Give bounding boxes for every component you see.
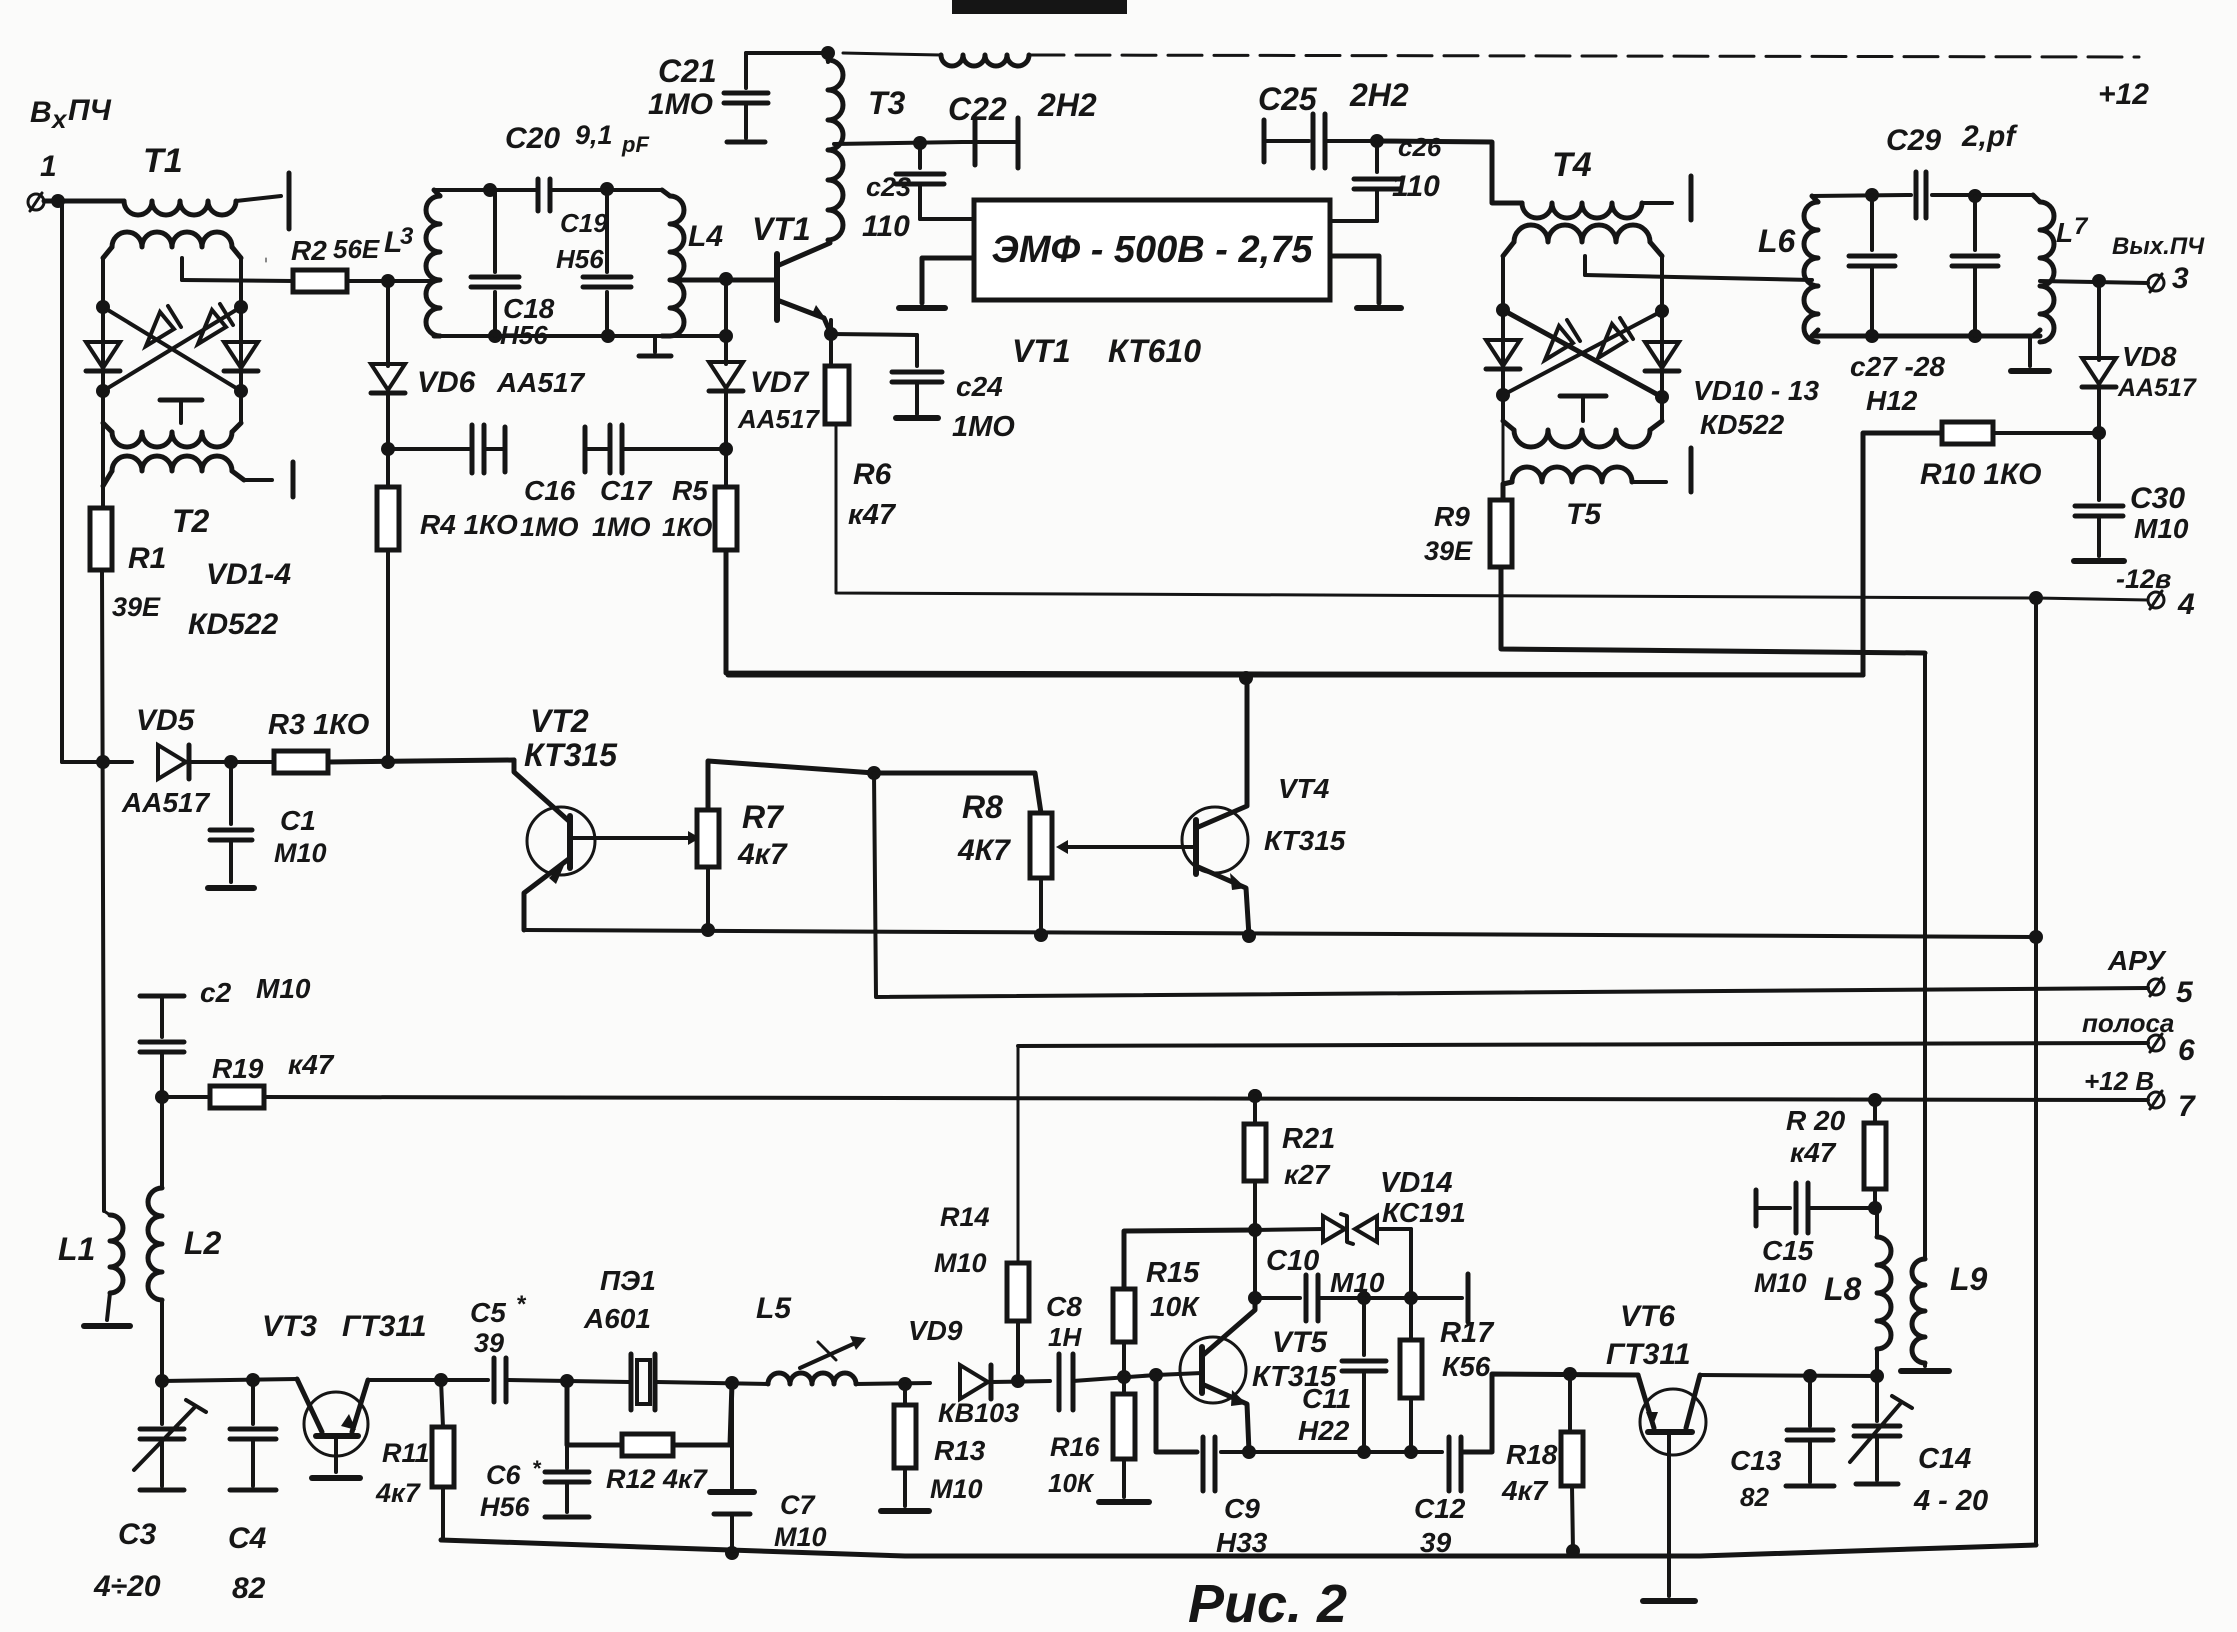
svg-text:с23: с23 xyxy=(866,172,911,202)
svg-text:39: 39 xyxy=(474,1328,504,1358)
capacitor C20 xyxy=(505,120,649,211)
svg-text:АА517: АА517 xyxy=(737,404,820,434)
svg-text:L2: L2 xyxy=(184,1225,222,1261)
capacitor C14 trimmer xyxy=(1850,1376,1988,1517)
ring diagonal wire B xyxy=(96,300,248,398)
svg-text:ЭМФ - 500В - 2,75: ЭМФ - 500В - 2,75 xyxy=(992,229,1314,271)
svg-text:R8: R8 xyxy=(962,789,1003,825)
svg-text:С5: С5 xyxy=(470,1297,506,1328)
wire VD14 down xyxy=(1404,1229,1418,1305)
svg-text:С11: С11 xyxy=(1302,1383,1351,1414)
svg-text:1МО: 1МО xyxy=(952,411,1015,443)
resistor R2 xyxy=(291,234,380,292)
top rail winding xyxy=(843,53,1029,66)
svg-text:R16: R16 xyxy=(1050,1432,1101,1462)
svg-text:110: 110 xyxy=(1392,170,1440,203)
svg-text:10К: 10К xyxy=(1048,1468,1095,1498)
labels VD10-13 KD522 xyxy=(1693,375,1819,440)
labels VT1 KT610 xyxy=(1012,333,1201,369)
junction C25/C26/T4 xyxy=(1370,134,1384,148)
tank2 bottom line xyxy=(1812,329,2040,343)
svg-text:М10: М10 xyxy=(274,838,327,868)
svg-text:+12: +12 xyxy=(2098,78,2149,111)
capacitor C22 xyxy=(948,87,1097,168)
transistor VT4 xyxy=(1182,678,1346,936)
tank2 top line xyxy=(1812,188,1911,202)
wire R7 top rail xyxy=(708,761,881,810)
capacitor C6 xyxy=(480,1381,589,1522)
svg-text:КD522: КD522 xyxy=(1700,409,1785,440)
resistor R15 xyxy=(1113,1230,1255,1377)
svg-text:М10: М10 xyxy=(256,973,311,1004)
resistor R14 / polosa drop xyxy=(934,1046,1029,1381)
svg-text:КТ315: КТ315 xyxy=(1264,825,1346,856)
R7 bottom lead xyxy=(706,867,710,930)
diode VD10 (left) xyxy=(1486,340,1520,369)
resistor R13 xyxy=(881,1384,986,1511)
wire PE1 to L5 xyxy=(657,1376,768,1390)
svg-text:М10: М10 xyxy=(1754,1268,1807,1298)
inductor L5 xyxy=(756,1292,856,1384)
svg-text:+12 В: +12 В xyxy=(2084,1066,2154,1096)
inductor L4 xyxy=(662,190,723,336)
svg-text:82: 82 xyxy=(232,1572,266,1605)
diode VD2 (right) xyxy=(224,342,258,371)
svg-text:39: 39 xyxy=(1420,1527,1452,1558)
svg-text:Н22: Н22 xyxy=(1298,1415,1350,1446)
svg-text:С9: С9 xyxy=(1224,1493,1260,1524)
svg-text:R2: R2 xyxy=(291,235,327,266)
svg-text:2Н2: 2Н2 xyxy=(1037,87,1097,123)
svg-text:С30: С30 xyxy=(2130,482,2185,515)
EMF input pin upper xyxy=(920,217,974,221)
svg-text:Н56: Н56 xyxy=(556,244,604,274)
inductor L6 xyxy=(1758,196,1818,342)
R8 bottom lead xyxy=(1039,878,1043,935)
svg-text:L4: L4 xyxy=(688,220,723,253)
diode VD9 xyxy=(908,1315,1019,1428)
wire to T4 xyxy=(1377,141,1522,203)
svg-text:R12 4к7: R12 4к7 xyxy=(606,1464,709,1494)
transformer T4 core bar xyxy=(1689,176,1694,220)
svg-text:КТ315: КТ315 xyxy=(524,737,618,773)
svg-text:10К: 10К xyxy=(1150,1291,1200,1322)
resistor R11 xyxy=(375,1380,454,1540)
svg-text:9,1: 9,1 xyxy=(575,120,613,150)
top rail to +12 xyxy=(1030,55,2149,111)
svg-text:R6: R6 xyxy=(853,458,892,491)
resistor R8 xyxy=(957,789,1052,878)
svg-text:R3 1КО: R3 1КО xyxy=(268,709,370,741)
bottom wire C5 to PE1 xyxy=(507,1374,629,1388)
wire VD7 to R5 xyxy=(719,393,733,487)
svg-text:Н33: Н33 xyxy=(1216,1527,1268,1558)
wire R2 to tank xyxy=(347,274,436,288)
ARU wire xyxy=(874,773,2194,1009)
wire rail to R8 xyxy=(874,773,1041,813)
EMF output pin upper xyxy=(1330,219,1377,223)
ring2 bottom winding xyxy=(1503,421,1662,447)
labels VD1-4 KD522 xyxy=(188,558,291,641)
resistor R18 xyxy=(1501,1374,1583,1558)
svg-text:R18: R18 xyxy=(1506,1439,1558,1470)
resistor R4 xyxy=(377,487,518,550)
wire R5 down right (to -12 region) xyxy=(726,550,1863,675)
svg-text:R19: R19 xyxy=(212,1053,264,1084)
wire top rail left xyxy=(746,46,835,60)
transistor VT1 xyxy=(752,211,831,334)
capacitor C17 xyxy=(592,425,653,542)
svg-text:С6: С6 xyxy=(486,1460,521,1490)
resistor R7 xyxy=(697,799,788,871)
wire C8 to R15/R16 node xyxy=(1073,1370,1156,1384)
svg-text:VD14: VD14 xyxy=(1380,1167,1453,1199)
svg-text:VТ6: VТ6 xyxy=(1620,1300,1675,1333)
diode VD6 xyxy=(371,281,586,399)
tank bottom line xyxy=(434,329,733,343)
svg-text:R21: R21 xyxy=(1282,1123,1335,1155)
svg-text:Т1: Т1 xyxy=(143,142,183,180)
long vertical to L9 xyxy=(1923,653,1927,1259)
resistor R6 xyxy=(824,320,897,531)
svg-text:1КО: 1КО xyxy=(662,512,712,542)
transformer T2 core bar xyxy=(172,462,293,539)
diode VD3 (upper diagonal) xyxy=(146,306,181,346)
svg-text:АА517: АА517 xyxy=(2117,374,2197,402)
ring demodulator VD1-4 top winding xyxy=(103,232,241,258)
svg-text:39Е: 39Е xyxy=(112,592,161,622)
svg-text:с24: с24 xyxy=(956,371,1003,402)
resistor R3 xyxy=(268,709,370,773)
svg-text:к47: к47 xyxy=(848,499,897,531)
svg-text:6: 6 xyxy=(2178,1034,2195,1067)
capacitor C21 xyxy=(648,53,768,142)
bottom wire VT3 to C5 xyxy=(368,1373,488,1387)
svg-text:ГТ311: ГТ311 xyxy=(342,1310,427,1343)
svg-text:R9: R9 xyxy=(1434,501,1470,532)
EMF filter box ЭМФ-500В-2,75 xyxy=(974,200,1330,300)
wire R1 down to L1 xyxy=(102,570,104,1211)
EMF output pin lower xyxy=(1330,256,1401,308)
svg-text:4К7: 4К7 xyxy=(957,834,1011,867)
figure caption Рис.2 xyxy=(1188,1574,1347,1632)
capacitor C24 xyxy=(831,334,1015,443)
capacitor C29 xyxy=(1886,120,2018,218)
wire VT2 collector to R7 wiper xyxy=(570,831,700,845)
svg-text:VТ2: VТ2 xyxy=(530,703,589,739)
tank top line xyxy=(434,182,614,197)
wire R4 down to R3 node xyxy=(386,550,390,763)
wire VD8 to R10 node xyxy=(2092,389,2106,440)
svg-text:С15: С15 xyxy=(1762,1235,1814,1266)
svg-text:КТ610: КТ610 xyxy=(1108,333,1201,369)
transformer T5 core bar xyxy=(1689,448,1694,492)
svg-text:4: 4 xyxy=(2177,588,2195,621)
svg-text:С16: С16 xyxy=(524,475,576,506)
svg-text:-12в: -12в xyxy=(2116,564,2171,594)
svg-text:R17: R17 xyxy=(1440,1317,1495,1349)
svg-text:VТ1: VТ1 xyxy=(1012,333,1071,369)
svg-text:7: 7 xyxy=(2074,213,2089,240)
svg-text:VD5: VD5 xyxy=(136,704,196,737)
transformer T5 winding xyxy=(1503,467,1666,531)
ring2 diagonal A xyxy=(1496,303,1669,404)
diode VD8 xyxy=(2082,281,2197,402)
svg-text:С14: С14 xyxy=(1918,1443,1971,1475)
resistor R5 xyxy=(662,475,737,550)
capacitor C16 xyxy=(472,425,579,542)
svg-text:1МО: 1МО xyxy=(648,88,713,121)
svg-text:Вых.ПЧ: Вых.ПЧ xyxy=(2112,233,2205,260)
svg-text:4к7: 4к7 xyxy=(737,838,788,871)
svg-text:ПЭ1: ПЭ1 xyxy=(600,1265,656,1296)
resistor R12 xyxy=(567,1381,732,1494)
wire R3 to VT2 base xyxy=(328,755,514,769)
svg-text:VD10 - 13: VD10 - 13 xyxy=(1693,375,1819,406)
svg-text:В: В xyxy=(30,96,52,129)
svg-text:L: L xyxy=(2056,217,2073,248)
svg-text:М10: М10 xyxy=(774,1522,827,1552)
svg-text:Т2: Т2 xyxy=(172,503,210,539)
capacitor C7 xyxy=(710,1383,827,1560)
inductor L9 xyxy=(1901,1259,1988,1371)
capacitor C23 xyxy=(862,143,944,243)
svg-text:VD9: VD9 xyxy=(908,1315,963,1346)
svg-text:С25: С25 xyxy=(1258,81,1318,117)
bottom bus xyxy=(441,1540,2036,1556)
wire R6 down to -12 line xyxy=(836,424,2034,598)
emitter bus VT5 xyxy=(1242,1445,1442,1459)
svg-text:Т4: Т4 xyxy=(1552,146,1592,184)
coupling line C16 C17 xyxy=(388,427,728,472)
transformer T2 winding xyxy=(103,456,244,486)
wire input down (left vertical) xyxy=(60,203,64,762)
wire ring2 to T5 xyxy=(1502,421,1505,486)
ring2 top winding xyxy=(1503,225,1662,256)
wire C12 up to VT6 base xyxy=(1462,1367,1638,1452)
svg-text:R 20: R 20 xyxy=(1786,1105,1846,1136)
resistor R1 xyxy=(90,508,166,622)
svg-text:полоса: полоса xyxy=(2082,1008,2174,1038)
ring2 diagonal B xyxy=(1496,304,1669,402)
svg-text:КD522: КD522 xyxy=(188,608,278,641)
ring demodulator VD1-4 bottom winding xyxy=(103,423,241,447)
svg-text:Т3: Т3 xyxy=(868,85,906,121)
transistor VT6 xyxy=(1606,1300,1706,1601)
svg-text:R10 1КО: R10 1КО xyxy=(1920,458,2041,491)
capacitor C10 xyxy=(1255,1245,1411,1321)
svg-text:R4 1КО: R4 1КО xyxy=(420,509,518,540)
T3 tap wire to C22 xyxy=(834,136,962,150)
svg-text:А601: А601 xyxy=(583,1303,651,1334)
svg-text:М10: М10 xyxy=(2134,513,2189,544)
svg-text:R1: R1 xyxy=(128,542,166,575)
ring2 left edge xyxy=(1501,256,1505,421)
svg-text:R5: R5 xyxy=(672,475,708,506)
capacitor C27 xyxy=(1849,195,1895,336)
svg-text:R11: R11 xyxy=(382,1438,430,1468)
resistor R19 xyxy=(155,1049,335,1108)
transformer T1 core bar xyxy=(143,142,289,229)
ring2 center tap mark xyxy=(1560,396,1606,421)
svg-text:VТ4: VТ4 xyxy=(1278,773,1330,804)
ring demodulator VD1-4 right edge xyxy=(241,258,266,423)
resistor R16 xyxy=(1048,1377,1149,1502)
svg-text:4к7: 4к7 xyxy=(1501,1475,1549,1506)
resistor R20 xyxy=(1786,1100,1886,1215)
svg-text:VТ1: VТ1 xyxy=(752,211,811,247)
svg-text:1Н: 1Н xyxy=(1048,1322,1082,1352)
ring diagonal wire A xyxy=(96,300,248,398)
svg-text:КВ103: КВ103 xyxy=(938,1398,1019,1428)
capacitor C15 xyxy=(1754,1183,1875,1298)
svg-text:С7: С7 xyxy=(780,1490,816,1520)
wire base VT5 xyxy=(1149,1368,1202,1382)
R8 wiper from VT4 base xyxy=(1056,840,1196,854)
resistor R21 xyxy=(1244,1089,1335,1237)
svg-text:1МО: 1МО xyxy=(520,512,579,542)
wire L7 to output terminal xyxy=(2040,233,2205,295)
svg-text:R14: R14 xyxy=(940,1202,990,1232)
svg-text:С10: С10 xyxy=(1266,1245,1319,1277)
tank top line right xyxy=(551,188,662,192)
svg-text:Т5: Т5 xyxy=(1566,498,1602,531)
inductor L8 xyxy=(1824,1208,1891,1376)
capacitor C13 xyxy=(1730,1376,1834,1512)
svg-text:2Н2: 2Н2 xyxy=(1349,77,1409,113)
transformer T1 primary winding xyxy=(124,196,281,215)
svg-text:С22: С22 xyxy=(948,91,1007,127)
capacitor C26 xyxy=(1354,132,1442,221)
svg-text:L6: L6 xyxy=(1758,223,1796,259)
ring2 right edge xyxy=(1660,256,1664,421)
svg-text:С19: С19 xyxy=(560,208,608,238)
svg-text:М10: М10 xyxy=(934,1248,987,1278)
emitter bus y935 xyxy=(524,923,2043,944)
svg-text:М10: М10 xyxy=(930,1474,983,1504)
svg-text:с2: с2 xyxy=(200,977,232,1008)
svg-text:39Е: 39Е xyxy=(1424,536,1473,566)
svg-text:С8: С8 xyxy=(1046,1291,1082,1322)
svg-text:х: х xyxy=(50,104,68,134)
wire collector node down xyxy=(1248,1230,1262,1305)
wire ring tap to R2 xyxy=(182,258,293,281)
ground mark under tank xyxy=(639,336,671,356)
scan mark top xyxy=(952,0,1127,14)
wire L4 to VT1 base xyxy=(670,272,777,286)
capacitor C18 xyxy=(471,190,555,350)
wire ring2 tap to L6 xyxy=(1585,256,1812,280)
capacitor C12 xyxy=(1414,1437,1466,1558)
svg-text:R13: R13 xyxy=(934,1435,986,1466)
polosa wire xyxy=(1018,1008,2195,1067)
diode VD13 (diagonal) xyxy=(1598,318,1633,358)
wire VD5 to R3 xyxy=(190,755,274,769)
inductor L1 xyxy=(58,1211,130,1326)
svg-text:VD8: VD8 xyxy=(2122,341,2177,372)
svg-text:Н12: Н12 xyxy=(1866,385,1918,416)
capacitor C5 xyxy=(470,1291,527,1402)
svg-text:2,рf: 2,рf xyxy=(1961,120,2018,153)
transistor VT3 xyxy=(262,1310,427,1478)
svg-text:L9: L9 xyxy=(1950,1261,1988,1297)
svg-text:4 - 20: 4 - 20 xyxy=(1913,1485,1988,1517)
svg-text:Н56: Н56 xyxy=(500,320,548,350)
svg-text:56Е: 56Е xyxy=(333,234,380,264)
svg-text:4к7: 4к7 xyxy=(375,1478,422,1508)
svg-text:АА517: АА517 xyxy=(496,367,586,398)
ring demodulator VD1-4 left edge xyxy=(101,258,105,423)
bottom wire left xyxy=(155,1373,297,1388)
tank2 top line right xyxy=(1932,189,2033,203)
svg-text:1МО: 1МО xyxy=(592,512,651,542)
L5 variable arrow xyxy=(800,1336,866,1368)
svg-text:VТ5: VТ5 xyxy=(1272,1326,1328,1359)
svg-text:1: 1 xyxy=(40,150,57,183)
inductor L7 xyxy=(2033,195,2089,342)
capacitor C19 xyxy=(556,189,631,336)
diode VD4 (upper diagonal) xyxy=(198,304,233,344)
svg-text:ПЧ: ПЧ xyxy=(68,94,112,127)
svg-text:С3: С3 xyxy=(118,1518,157,1551)
vertical -12 right xyxy=(2034,598,2038,1545)
capacitor C8 xyxy=(1046,1291,1082,1410)
svg-text:R7: R7 xyxy=(742,799,785,835)
svg-text:к47: к47 xyxy=(1790,1137,1837,1168)
wire VD9 to C8 xyxy=(992,1374,1050,1388)
capacitor C2 xyxy=(140,973,311,1097)
diode VD5 xyxy=(62,704,211,818)
svg-text:5: 5 xyxy=(2176,976,2194,1009)
svg-text:с27 -28: с27 -28 xyxy=(1850,351,1945,382)
svg-text:Н56: Н56 xyxy=(480,1492,531,1522)
svg-text:С29: С29 xyxy=(1886,124,1941,157)
svg-text:82: 82 xyxy=(1740,1482,1769,1512)
transistor VT5 xyxy=(1180,1298,1337,1452)
ground under tank2 xyxy=(2011,336,2049,371)
capacitor C3 trimmer xyxy=(93,1381,206,1603)
diode VD12 (diagonal) xyxy=(1545,320,1580,360)
diode VD1 (left) xyxy=(86,342,120,371)
wire collector bus y676 xyxy=(728,671,1863,685)
svg-text:С21: С21 xyxy=(658,53,717,89)
svg-text:L1: L1 xyxy=(58,1231,95,1267)
svg-text:к47: к47 xyxy=(288,1049,335,1080)
C10 right stub xyxy=(1411,1274,1468,1322)
svg-text:7: 7 xyxy=(2178,1090,2196,1123)
svg-text:рF: рF xyxy=(621,132,649,157)
svg-text:VD6: VD6 xyxy=(417,366,476,399)
EMF input pin lower xyxy=(899,258,974,308)
wire ring to T2 to R1 xyxy=(101,423,105,508)
wire R9 to -12 return xyxy=(1501,567,1925,653)
+12 rail xyxy=(264,1066,2196,1123)
svg-text:ГТ311: ГТ311 xyxy=(1606,1338,1691,1371)
svg-text:С1: С1 xyxy=(280,805,316,836)
svg-text:С4: С4 xyxy=(228,1522,267,1555)
svg-text:3: 3 xyxy=(2172,262,2189,295)
capacitor C11 xyxy=(1298,1298,1386,1452)
svg-text:С17: С17 xyxy=(600,475,653,506)
quartz PE1 А601 xyxy=(583,1265,656,1410)
svg-text:С20: С20 xyxy=(505,122,560,155)
svg-text:R15: R15 xyxy=(1146,1257,1200,1289)
capacitor C4 xyxy=(228,1380,276,1605)
svg-text:М10: М10 xyxy=(1330,1267,1385,1298)
capacitor C9 xyxy=(1156,1375,1268,1558)
svg-text:VD7: VD7 xyxy=(750,366,810,399)
svg-text:L5: L5 xyxy=(756,1292,792,1325)
